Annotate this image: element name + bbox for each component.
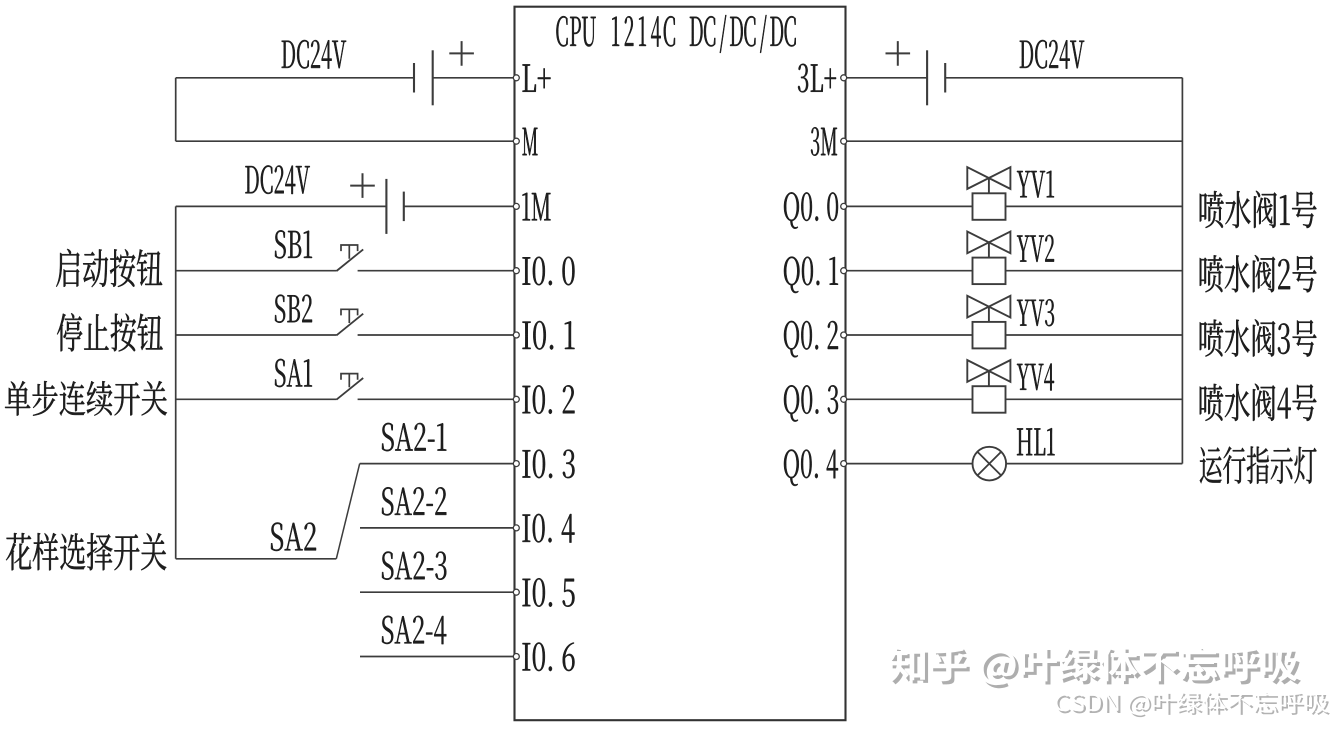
pin circle Q0.2 [841, 332, 847, 338]
label YV2 [1017, 235, 1054, 262]
wire L+ left segment [176, 77, 414, 79]
pin label Q0.3 [784, 385, 838, 421]
pin circle 3M [841, 138, 847, 144]
label 喷水阀3号 [1200, 319, 1317, 356]
label SA2 [271, 522, 316, 550]
pin circle 3L+ [841, 75, 847, 81]
wire SB2 left segment [176, 334, 337, 336]
wire Q0.3 pin to valve [847, 398, 973, 400]
watermark zhihu [892, 649, 1301, 688]
wire SA1 left segment [176, 398, 337, 400]
wire valve YV4 to right bus [1006, 398, 1183, 400]
pin circle Q0.0 [841, 203, 847, 209]
pin circle I0.2 [513, 396, 519, 402]
label 花样选择开关 [6, 533, 166, 570]
wire Q0.2 pin to valve [847, 334, 973, 336]
wire 3M [847, 140, 1183, 142]
pin circle Q0.1 [841, 268, 847, 274]
battery GB3 plus sign [886, 41, 911, 66]
battery GB1 plates [432, 50, 434, 105]
label YV1 [1017, 171, 1054, 198]
wire valve YV1 to right bus [1006, 205, 1183, 207]
battery GB2 plus sign [350, 173, 375, 198]
battery GB1 plus sign [449, 41, 474, 66]
label 喷水阀1号 [1200, 191, 1317, 228]
label DC24V left top [282, 40, 346, 69]
label 单步连续开关 [5, 381, 167, 416]
label SA2-3 [382, 551, 446, 579]
wire SB2 to pin [358, 334, 514, 336]
pin label I0.0 [522, 257, 574, 286]
wire valve YV3 to right bus [1006, 334, 1183, 336]
pin label Q0.2 [784, 321, 838, 357]
label 运行指示灯 [1200, 446, 1317, 483]
pin label 1M [522, 193, 550, 221]
pin label Q0.0 [784, 192, 838, 228]
pin circle Q0.4 [841, 461, 847, 467]
wire 1M left segment [176, 205, 387, 207]
wire battery GB1 to pin L+ [433, 77, 514, 79]
pin circle Q0.3 [841, 396, 847, 402]
wire battery GB2 to pin 1M [404, 205, 514, 207]
pin circle I0.0 [513, 268, 519, 274]
valve YV1 [967, 167, 1010, 189]
label HL1 [1017, 428, 1055, 455]
wire SB1 to pin [358, 270, 514, 272]
CPU box U1 [515, 7, 846, 721]
wire left input bus [175, 206, 177, 558]
pin circle I0.3 [513, 461, 519, 467]
pin label I0.1 [522, 321, 574, 350]
pin circle I0.4 [513, 525, 519, 531]
watermark csdn [1057, 693, 1330, 717]
pin circle I0.6 [513, 654, 519, 660]
pin label 3M [811, 127, 837, 156]
label DC24V right [1020, 40, 1084, 69]
label YV3 [1017, 299, 1054, 326]
pin label I0.3 [522, 450, 574, 479]
label SB1 [275, 230, 312, 258]
battery GB3 plates [926, 50, 928, 105]
pin label I0.4 [523, 514, 575, 543]
wire SA2 common [176, 558, 337, 560]
wire Q0.4 pin to lamp [847, 463, 973, 465]
pin label I0.2 [522, 385, 574, 414]
label SB2 [275, 295, 312, 323]
lamp HL1 [973, 447, 1007, 481]
label 喷水阀2号 [1200, 255, 1317, 292]
wire 3L+ pin to battery [847, 77, 928, 79]
pin label 3L+ [798, 64, 836, 93]
wire SA2-4 contact to pin I0.6 [360, 656, 514, 658]
valve YV2 [967, 232, 1010, 254]
pin circle I0.5 [513, 589, 519, 595]
wire SA2-3 contact to pin I0.5 [360, 591, 514, 593]
wire valve YV2 to right bus [1006, 270, 1183, 272]
label SA2-1 [382, 423, 446, 451]
valve YV3 [967, 296, 1010, 318]
wire SA1 to pin [358, 398, 514, 400]
pin label Q0.4 [784, 450, 838, 486]
pin label Q0.1 [784, 257, 838, 293]
wire M [176, 140, 514, 142]
label SA1 [275, 359, 312, 387]
pin label L+ [523, 64, 551, 91]
wire left bus L+ to M [175, 78, 177, 141]
wire SB1 left segment [176, 270, 337, 272]
battery GB2 plates [385, 179, 387, 234]
wire SA2-1 contact to pin I0.3 [360, 463, 514, 465]
label 停止按钮 [57, 313, 163, 351]
switch SB1 (pushbutton) [337, 249, 364, 271]
wire Q0.0 pin to valve [847, 205, 973, 207]
wire battery GB3 to right bus [945, 77, 1182, 79]
label YV4 [1017, 363, 1054, 390]
pin label I0.6 [522, 642, 574, 671]
switch SA2 selector blade [336, 464, 359, 559]
wire SA2-2 contact to pin I0.4 [360, 527, 514, 529]
switch SB2 (pushbutton) [337, 314, 364, 336]
valve YV4 [967, 360, 1010, 382]
wire Q0.1 pin to valve [847, 270, 973, 272]
label SA2-4 [382, 616, 446, 644]
pin circle 1M [513, 203, 519, 209]
pin circle M [513, 138, 519, 144]
label DC24V left lower [245, 165, 309, 194]
wire lamp HL1 to right bus [1006, 463, 1182, 465]
pin circle L+ [513, 75, 519, 81]
CPU title label [556, 16, 567, 46]
pin circle I0.1 [513, 332, 519, 338]
wire right bus [1181, 78, 1183, 464]
label 喷水阀4号 [1200, 384, 1317, 421]
pin label I0.5 [523, 578, 575, 607]
label SA2-2 [382, 487, 446, 515]
pin label M [522, 128, 537, 155]
switch SA1 (pushbutton) [337, 378, 364, 400]
label 启动按钮 [56, 249, 162, 287]
